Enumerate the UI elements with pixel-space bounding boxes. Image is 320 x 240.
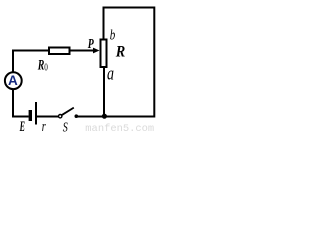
- svg-text:b: b: [110, 28, 116, 44]
- svg-text:S: S: [63, 121, 68, 134]
- svg-text:E: E: [19, 119, 25, 133]
- svg-text:a: a: [107, 63, 114, 84]
- svg-text:R: R: [115, 44, 125, 61]
- svg-text:A: A: [8, 73, 18, 88]
- svg-text:P: P: [88, 36, 95, 51]
- svg-text:manfen5.com: manfen5.com: [85, 123, 154, 133]
- svg-text:r: r: [42, 119, 46, 133]
- svg-text:0: 0: [44, 62, 48, 73]
